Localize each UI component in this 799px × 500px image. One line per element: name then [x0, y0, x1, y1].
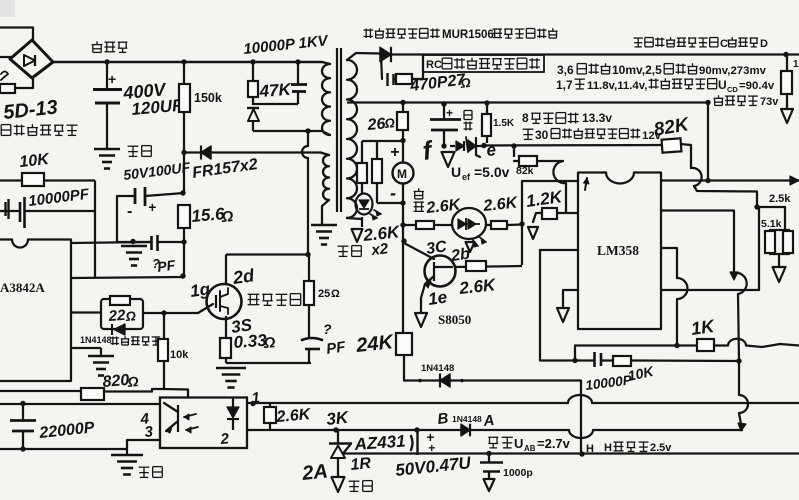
fan motor branch [400, 100, 405, 105]
LM358 pin row y181 [522, 181, 577, 224]
wire FB row [71, 277, 184, 278]
svg-text:Ω: Ω [126, 373, 139, 390]
svg-text:5D-13: 5D-13 [2, 96, 58, 124]
svg-text:Ω: Ω [124, 308, 136, 324]
label measured UAB [488, 436, 498, 438]
svg-text:22: 22 [107, 307, 126, 325]
svg-text:2.6K: 2.6K [457, 275, 497, 298]
arrow cold ground fan [352, 229, 363, 242]
label FET chinese [248, 293, 260, 295]
cap electrolytic 5V [441, 101, 446, 106]
RC snubber across MUR [381, 55, 382, 80]
svg-text:Ω: Ω [331, 288, 340, 300]
wire secondary top to MUR diode [347, 53, 380, 60]
cap 50V100uF [134, 188, 137, 204]
LM358 right pin y181 to top rail [661, 179, 708, 181]
svg-text:120UF: 120UF [131, 96, 184, 119]
svg-text:MUR1506: MUR1506 [442, 29, 494, 41]
svg-text:+: + [108, 71, 116, 87]
svg-text:3,6: 3,6 [557, 63, 574, 77]
svg-text:470P27: 470P27 [408, 71, 467, 95]
arrow cold gnd AZ431 [332, 477, 345, 492]
svg-text:2.6K: 2.6K [275, 406, 313, 426]
thermistor RT [0, 84, 15, 93]
resistor 1.5K [484, 100, 489, 105]
transistor Q1 MOSFET [207, 284, 242, 319]
diode 1N4148 switch [114, 324, 125, 335]
fan row 2.6K resistors + LED [403, 224, 416, 226]
resistor 26ohm [402, 103, 404, 113]
feedback row y360 [540, 359, 575, 361]
RC annotation box [423, 55, 544, 72]
LM358 right pin y210 to fb node [661, 211, 734, 274]
snubber cap 10000P [295, 59, 300, 64]
wire primary-bottom to FET drain column [302, 131, 308, 255]
svg-text:47K: 47K [258, 80, 293, 101]
svg-text:5.1k: 5.1k [761, 218, 782, 230]
AZ431 shunt [333, 427, 338, 432]
resistor 150k [183, 62, 185, 84]
svg-text:+: + [446, 106, 453, 120]
resistor 2.6K bottom [269, 403, 271, 407]
wire LED branch to cold gnd [361, 217, 363, 227]
transformer secondary winding [347, 60, 357, 218]
svg-text:PF: PF [156, 257, 176, 275]
node bulk cap [104, 59, 109, 64]
cap 22000p [0, 448, 127, 450]
wire cap bottom row [117, 241, 151, 243]
svg-text:ef: ef [462, 172, 471, 182]
wire e to 82K row [484, 144, 662, 147]
cap plates left edge [4, 202, 6, 216]
resistor 10k gate [163, 313, 165, 339]
svg-text:x2: x2 [370, 240, 390, 259]
svg-text:H: H [604, 442, 612, 454]
svg-text:24K: 24K [354, 331, 395, 357]
ground 2 [121, 245, 147, 248]
resistors 5.1k pair [757, 207, 785, 230]
transformer aux winding [323, 155, 329, 200]
svg-text:10000PF: 10000PF [27, 186, 90, 210]
svg-text:C: C [720, 38, 728, 50]
svg-text:10mv,2,5: 10mv,2,5 [612, 63, 662, 77]
wire fb vertical to H [580, 381, 582, 455]
svg-text:8: 8 [522, 111, 529, 125]
feedback RC row y345 [575, 346, 677, 361]
ground 5 hot [111, 454, 143, 457]
svg-text:22000P: 22000P [38, 419, 96, 442]
cap 1000p [486, 451, 491, 456]
diode MUR1506 [380, 47, 391, 61]
transistor Q2 S8050 [425, 256, 456, 287]
LM358 right pin y248 [661, 248, 677, 278]
svg-text:10k: 10k [170, 349, 189, 361]
svg-text:3: 3 [144, 423, 154, 441]
svg-text:-: - [127, 203, 132, 220]
svg-text:2d: 2d [231, 265, 257, 288]
svg-text:U: U [718, 78, 727, 92]
svg-text:M: M [397, 167, 407, 181]
svg-text:-: - [390, 183, 396, 203]
svg-text:A: A [482, 412, 496, 430]
svg-text:A3842A: A3842A [0, 280, 45, 295]
svg-text:D: D [760, 38, 768, 50]
transformer core [336, 48, 338, 212]
svg-text:150k: 150k [194, 91, 222, 105]
svg-text:=90.4v: =90.4v [739, 80, 775, 92]
svg-text:50V100UF: 50V100UF [122, 159, 191, 183]
svg-text:1K: 1K [690, 316, 718, 339]
cap 10000p fb [575, 359, 594, 361]
capacitor 400V 120uF [106, 62, 108, 89]
svg-text:1e: 1e [427, 288, 448, 309]
resistor 2.6K LED branch [361, 141, 363, 163]
wire top-left to bridge top [0, 28, 33, 42]
opto pin4 wire [0, 403, 160, 405]
resistor 22ohm + diode combo [101, 299, 143, 329]
opto pin3 to ground [127, 440, 160, 453]
wire AZ431 ref to H row [343, 445, 350, 454]
svg-text:Ω: Ω [220, 208, 234, 226]
svg-text:90mv,273mv: 90mv,273mv [699, 65, 767, 77]
svg-text:30: 30 [535, 128, 549, 142]
optocoupler U2 box [160, 398, 247, 449]
main DC rail y62 [52, 61, 322, 63]
LM358 right pin y290 to 2.5k node [661, 289, 752, 291]
svg-text:LM358: LM358 [597, 243, 639, 258]
resistor 10K input [0, 179, 22, 181]
ground aux winding [311, 224, 337, 227]
cap 10000PF [0, 210, 19, 212]
svg-text:26: 26 [366, 115, 386, 134]
cap 0.47uF [414, 427, 419, 432]
svg-text:U: U [451, 164, 461, 180]
node snubber 47K [250, 59, 255, 64]
motor M [393, 163, 414, 184]
resistor 25ohm [308, 255, 310, 282]
vertical to FB [94, 181, 96, 279]
svg-text:10000P 1KV: 10000P 1KV [243, 32, 331, 58]
bridge rectifier [10, 40, 53, 78]
svg-text:1,7: 1,7 [556, 78, 573, 92]
resistor 0.33ohm [220, 338, 231, 358]
svg-text:RC: RC [426, 59, 442, 71]
pen arrow inside [585, 178, 587, 190]
svg-text:f: f [421, 135, 436, 166]
label battery connect title [634, 37, 643, 39]
svg-text:AZ431: AZ431 [353, 431, 406, 454]
svg-text:?: ? [323, 321, 332, 337]
cap ?PF series [150, 236, 153, 250]
svg-text:1N4148: 1N4148 [421, 363, 454, 374]
opto LED [232, 398, 234, 407]
resistor 15.6ohm [178, 205, 190, 228]
main negative rail [402, 203, 404, 225]
svg-text:U: U [514, 436, 523, 451]
arrow 1e [415, 313, 427, 327]
wire bridge bottom to thermistor [15, 78, 33, 88]
wire snubber mid [253, 103, 298, 105]
svg-text:2: 2 [219, 430, 230, 448]
wire 22ohm to gate [143, 312, 198, 314]
svg-text:1g: 1g [189, 279, 212, 301]
resistor 15K dummy load [786, 55, 788, 72]
svg-text:2.5k: 2.5k [769, 193, 791, 205]
LED circle 2 [452, 208, 486, 239]
svg-text:82K: 82K [652, 114, 691, 141]
svg-text:3C: 3C [425, 238, 448, 258]
capacitor ?PF at FET [302, 338, 322, 340]
svg-text:e: e [486, 140, 497, 160]
arrow ref [442, 152, 455, 167]
resistor 82k printed [513, 146, 515, 157]
transformer primary winding [322, 64, 330, 135]
label dummy load 73v [718, 95, 720, 98]
resistor 2.6K base [466, 261, 486, 271]
label MUR1506 title [364, 29, 374, 31]
svg-text:S8050: S8050 [438, 312, 471, 327]
LM358 pin row y290 left [563, 290, 577, 308]
wire MUR rail y54 [392, 53, 799, 55]
label thermistor chinese [0, 125, 2, 136]
secondary bottom hook [347, 218, 362, 219]
node 150k [181, 59, 186, 64]
resistor 47K [252, 62, 254, 81]
svg-text:73v: 73v [760, 96, 779, 108]
zener in snubber [247, 107, 259, 109]
svg-text:1000p: 1000p [503, 467, 533, 479]
vertical rail junction x708 [707, 103, 709, 181]
diode FR157 [201, 146, 211, 159]
svg-text:2.5v: 2.5v [650, 442, 672, 454]
wire snubber bottom to primary [253, 130, 322, 132]
label fan vertical [418, 188, 420, 191]
svg-text:11.8v,11.4v,: 11.8v,11.4v, [587, 80, 647, 92]
svg-text:Ω: Ω [262, 334, 276, 352]
svg-text:1.5K: 1.5K [493, 118, 515, 129]
svg-text:13.3v: 13.3v [582, 111, 612, 125]
label pin1 [250, 401, 255, 406]
FET drain wire [225, 255, 227, 285]
svg-text:B: B [437, 410, 450, 428]
scan artifact top-left [0, 0, 15, 17]
vertical x184 to IC FB [183, 153, 185, 193]
svg-text:1R: 1R [350, 455, 373, 474]
svg-text:Ω: Ω [459, 75, 472, 91]
svg-text:2A: 2A [300, 460, 329, 485]
wire secondary rail y102 [347, 101, 708, 103]
svg-text:+: + [148, 199, 156, 215]
svg-text:2.6K: 2.6K [482, 194, 520, 215]
wire 82k to inverting input [537, 160, 563, 162]
ground 4 FET [216, 367, 246, 370]
zener pair [450, 145, 455, 147]
svg-text:=5.0v: =5.0v [474, 164, 510, 180]
svg-text:15: 15 [793, 59, 799, 70]
wire opto pin1 row y403 [247, 395, 799, 403]
wire 10k down to opto [164, 361, 188, 397]
wire opto pin2 row y430 [247, 430, 741, 438]
base row S8050 [454, 266, 522, 267]
wire 24K column [402, 225, 404, 333]
resistor 820ohm [0, 390, 81, 392]
IC pin to ground row [71, 347, 101, 349]
svg-text:AB: AB [524, 444, 536, 453]
svg-text:1N4148: 1N4148 [452, 414, 482, 424]
svg-text:1N4148: 1N4148 [80, 335, 112, 345]
svg-text:3K: 3K [325, 408, 350, 429]
svg-text:H: H [586, 443, 594, 455]
LED indicator [361, 183, 363, 194]
svg-text:=2.7v: =2.7v [537, 436, 571, 451]
svg-text:820: 820 [102, 372, 130, 391]
svg-text:2b: 2b [449, 245, 471, 265]
svg-text:PF: PF [325, 338, 347, 358]
wire drain row [226, 253, 308, 255]
op-amp IC U1 A3842A box [0, 238, 12, 240]
FET source wire [225, 316, 227, 338]
arrow below LED [466, 242, 475, 252]
label dianjie vertical [463, 111, 465, 120]
svg-text:FR157x2: FR157x2 [191, 156, 259, 182]
ground 3 [88, 355, 114, 358]
source ground row [226, 362, 311, 364]
IC pin row to snubber caps [71, 242, 151, 243]
wire H row y453 [343, 452, 799, 454]
svg-text:50V0.47U: 50V0.47U [394, 453, 472, 480]
svg-text:Ω: Ω [383, 115, 395, 131]
svg-text:+: + [390, 144, 399, 161]
resistor fan parallel [376, 141, 378, 159]
label hei-da-ge [96, 41, 98, 44]
IC pin out row [71, 311, 101, 313]
LM358 pin row y250 [540, 250, 577, 361]
FR157 wire [184, 151, 322, 153]
svg-text:CD: CD [727, 85, 738, 94]
wire 24K to 1N4148 row [404, 355, 581, 381]
label 30ohm dummy [523, 128, 534, 130]
svg-text:82k: 82k [516, 165, 534, 177]
fan branch top wire [362, 140, 403, 142]
ground hot 1 [94, 148, 120, 151]
resistor 24K [396, 333, 412, 355]
opto phototransistor [177, 405, 179, 432]
svg-text:25: 25 [318, 288, 330, 300]
resistor 10K fb [613, 356, 631, 366]
wire mains to bridge left [0, 56, 11, 58]
op-amp U3 LM358 box [578, 173, 661, 330]
svg-text:10K: 10K [19, 151, 51, 171]
svg-text:10000P: 10000P [585, 372, 634, 393]
